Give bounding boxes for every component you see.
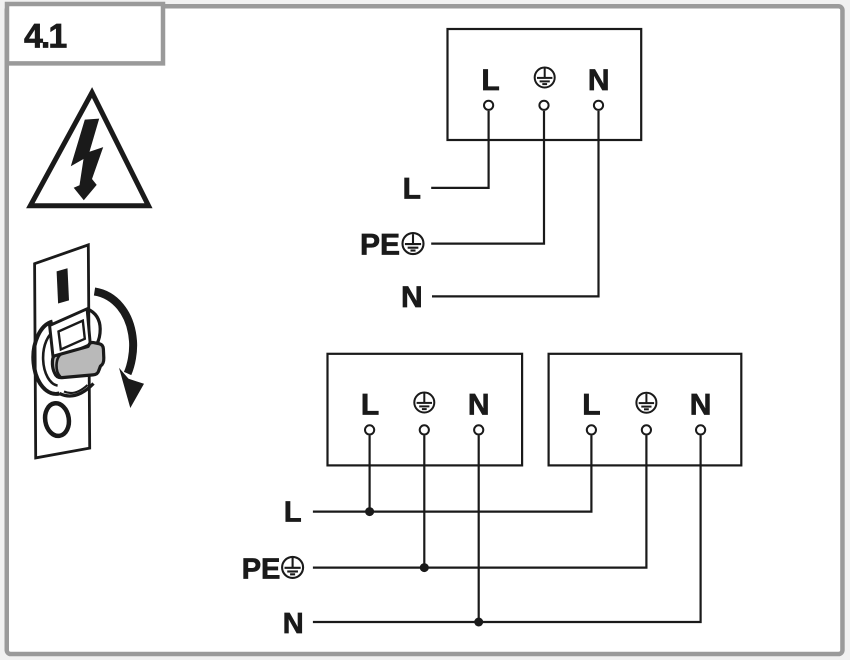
svg-text:PE: PE [360, 228, 400, 261]
svg-text:L: L [582, 389, 600, 422]
svg-text:4.1: 4.1 [24, 18, 66, 56]
svg-text:N: N [401, 281, 423, 314]
svg-text:L: L [284, 497, 302, 529]
svg-text:L: L [481, 64, 499, 97]
svg-text:N: N [690, 389, 712, 422]
svg-text:PE: PE [242, 553, 281, 585]
svg-text:N: N [588, 64, 610, 97]
svg-text:N: N [468, 389, 490, 422]
svg-text:L: L [361, 389, 379, 422]
svg-text:L: L [403, 173, 421, 206]
svg-text:N: N [283, 608, 304, 640]
